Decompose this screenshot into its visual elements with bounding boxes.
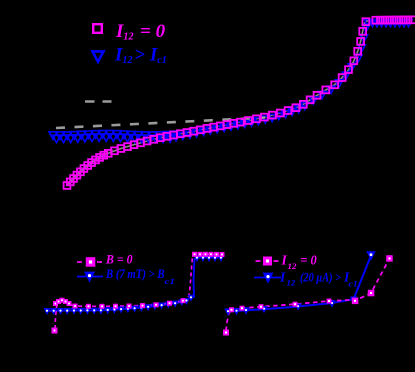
svg-text:12: 12 [287,278,297,288]
svg-text:(20 µA) >: (20 µA) > [300,270,341,285]
svg-text:B (7 mT) > B: B (7 mT) > B [105,266,165,281]
svg-text:I12 = 0: I12 = 0 [115,21,166,43]
svg-text:B = 0: B = 0 [105,251,133,266]
svg-text:12: 12 [288,261,298,271]
svg-text:c1: c1 [165,276,176,286]
svg-text:I: I [279,270,286,285]
svg-text:I: I [281,253,288,268]
svg-text:= 0: = 0 [300,253,317,268]
svg-text:c1: c1 [349,278,358,288]
